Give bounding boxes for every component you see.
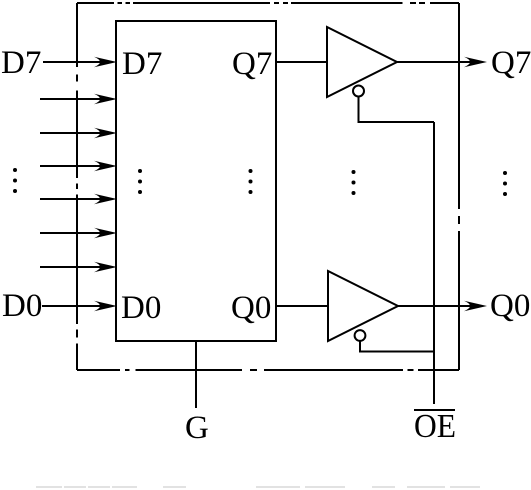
outer enclosure chain-line top border: [77, 2, 459, 4]
wire OE vertical bus: [433, 122, 435, 404]
bubble upper enable: [353, 86, 364, 97]
arrowhead Q0 output: [464, 301, 487, 311]
arrowhead input row 3: [94, 128, 117, 138]
wire input row 6: [40, 232, 100, 234]
node ellipsis right bus: [503, 171, 507, 196]
arrowhead input row 6: [94, 228, 117, 238]
tri-state buffer lower (Q0): [328, 271, 398, 341]
wire G stem: [195, 342, 197, 408]
wire Q0 buffer output: [398, 305, 470, 307]
svg-text:Q0: Q0: [490, 288, 530, 324]
svg-text:Q7: Q7: [232, 46, 272, 82]
svg-text:D0: D0: [2, 288, 42, 324]
arrowhead D7 input: [94, 57, 117, 67]
svg-text:D7: D7: [122, 46, 162, 82]
svg-text:Q7: Q7: [491, 45, 531, 81]
arrowhead Q7 output: [464, 57, 487, 67]
node ellipsis D column: [138, 169, 142, 194]
svg-text:D7: D7: [1, 45, 41, 81]
node ellipsis buffer column: [352, 170, 356, 195]
wire upper buffer enable stem: [359, 97, 435, 123]
svg-text:Q0: Q0: [231, 290, 271, 326]
tri-state buffer upper (Q7): [327, 27, 397, 97]
arrowhead input row 2: [94, 94, 117, 104]
outer enclosure chain-line right border: [458, 3, 460, 370]
wire Q7 buffer output: [397, 61, 470, 63]
wire Q0 latch to buffer: [277, 305, 328, 307]
wire D7 input: [43, 61, 100, 63]
bubble lower enable: [355, 330, 366, 341]
arrowhead input row 5: [94, 194, 117, 204]
arrowhead D0 input: [94, 301, 117, 311]
wire input row 3: [40, 132, 100, 134]
svg-text:D0: D0: [121, 290, 161, 326]
wire Q7 latch to buffer: [277, 61, 327, 63]
arrowhead input row 4: [94, 161, 117, 171]
latch box U1 (8-bit D latch): [116, 21, 276, 341]
wire lower buffer enable stem: [360, 341, 434, 352]
wire input row 7: [40, 266, 100, 268]
wire input row 4: [40, 165, 100, 167]
svg-text:OE: OE: [414, 408, 456, 445]
outer enclosure chain-line bottom border: [77, 369, 459, 371]
node ellipsis Q column: [249, 169, 253, 194]
node ellipsis left bus: [13, 168, 17, 193]
arrowhead input row 7: [94, 262, 117, 272]
wire input row 5: [40, 198, 100, 200]
outer enclosure chain-line left border: [76, 3, 78, 370]
overline of OE: [414, 409, 455, 411]
cropped caption sliver: [36, 486, 480, 488]
wire D0 input: [42, 305, 100, 307]
svg-text:G: G: [185, 410, 209, 446]
wire input row 2: [40, 98, 100, 100]
